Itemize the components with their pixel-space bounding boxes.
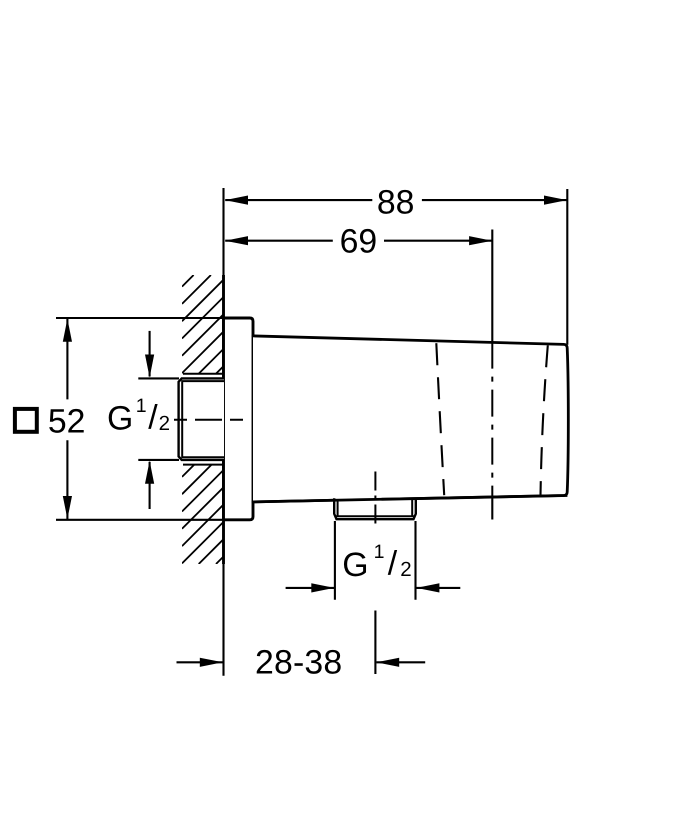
dimension 52 line and arrows [63, 319, 72, 520]
inlet fitting G1/2 thread [179, 378, 224, 460]
G 1/2 label left [107, 395, 170, 438]
G 1/2 down arrow [145, 331, 154, 378]
escutcheon wall plate [224, 318, 254, 520]
dimension 88 [225, 183, 567, 344]
square symbol [15, 409, 37, 432]
28-38 right arrow [376, 658, 425, 667]
body centre line (69 reference) [491, 230, 493, 520]
28-38 left arrow [177, 658, 223, 667]
svg-text:2: 2 [400, 558, 411, 581]
bottom G1/2 right-pointing arrow [286, 583, 335, 592]
svg-text:G: G [342, 546, 368, 584]
dimension 52 extension lines [56, 318, 222, 520]
svg-text:1: 1 [374, 541, 385, 563]
svg-text:52: 52 [48, 402, 86, 440]
svg-text:/: / [388, 545, 398, 583]
outlet centre line [374, 472, 376, 527]
inlet centre line [174, 419, 247, 421]
svg-text:1: 1 [136, 395, 147, 417]
G 1/2 label bottom [342, 541, 411, 584]
inlet fitting extension lines [138, 378, 179, 460]
wall face line / left extension line [222, 188, 224, 676]
outlet thread extension lines [335, 521, 416, 600]
body silhouette dashed line right [541, 345, 548, 494]
svg-text:G: G [107, 400, 133, 438]
body silhouette dashed line left [436, 343, 444, 495]
28-38 right extension line [374, 611, 376, 675]
svg-text:88: 88 [377, 183, 415, 221]
outlet fitting G1/2 thread [334, 498, 416, 520]
dimension 69 [225, 223, 492, 261]
svg-text:2: 2 [159, 412, 170, 435]
svg-text:28-38: 28-38 [255, 644, 342, 682]
wall hatching [182, 275, 223, 564]
G 1/2 up arrow [145, 461, 154, 509]
wall clearance hole lines [183, 374, 224, 465]
bottom G1/2 left-pointing arrow [416, 583, 460, 592]
body bottom edge over outlet [253, 496, 567, 502]
svg-text:/: / [148, 398, 158, 436]
shower outlet body [253, 336, 568, 502]
svg-text:69: 69 [340, 223, 378, 261]
